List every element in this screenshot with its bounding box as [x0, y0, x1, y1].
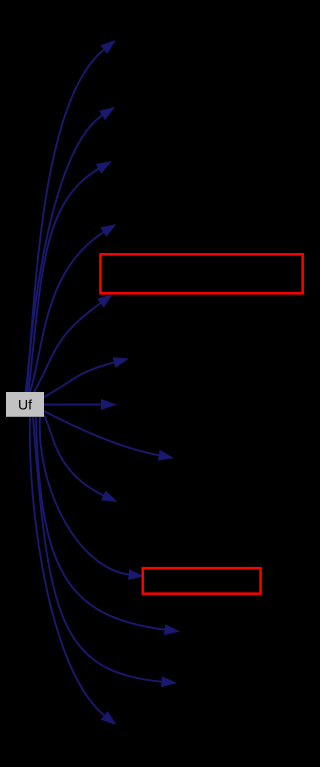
svg-text:Uf: Uf [18, 396, 32, 412]
